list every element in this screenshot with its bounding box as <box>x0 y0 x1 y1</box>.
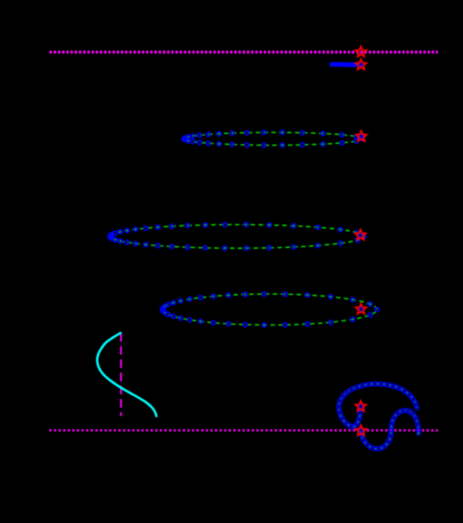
star at dome <box>355 401 366 411</box>
star on top line <box>356 46 367 56</box>
top dotted magenta line (planet orbit level) <box>50 51 439 54</box>
orbit loop E1 (small ellipse) <box>184 132 362 145</box>
vertical dashed magenta line <box>120 333 122 416</box>
star at E1 tip <box>356 131 367 141</box>
star at lozenge end <box>356 59 367 69</box>
S-shaped trajectory (dense chain) <box>361 410 419 449</box>
orbit loop E2 (large ellipse) <box>110 225 364 249</box>
dome trajectory (dense chain loop) <box>339 384 417 427</box>
bottom dotted magenta line <box>49 429 438 431</box>
star on bottom line <box>356 425 367 435</box>
tiny orbit: dense blue chain (lozenge) <box>330 62 357 67</box>
orbit loop E3 (medium ellipse) <box>163 294 377 325</box>
cyan S-curve <box>97 333 156 416</box>
star at E2 tip <box>355 230 366 240</box>
star at E3 <box>356 304 367 314</box>
